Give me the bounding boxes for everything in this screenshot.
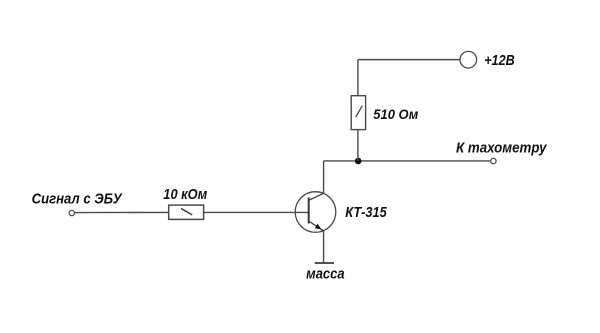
- svg-text:510 Ом: 510 Ом: [373, 106, 419, 122]
- wire: collector up to junction level: [323, 161, 325, 194]
- resistor R1 10 кОм: [169, 205, 204, 219]
- wire: collector node horizontal to output terminal: [324, 160, 491, 162]
- svg-text:10 кОм: 10 кОм: [163, 186, 207, 203]
- svg-text:+12В: +12В: [484, 53, 515, 69]
- resistor R2 510 Ом: [351, 96, 365, 130]
- svg-text:КТ-315: КТ-315: [345, 205, 387, 221]
- wire: resistor R2 up: [357, 60, 359, 96]
- transistor Q1 КТ-315: [295, 192, 336, 233]
- node: output terminal (К тахометру): [491, 158, 496, 163]
- svg-text:К тахометру: К тахометру: [456, 139, 547, 156]
- node: input terminal (Сигнал с ЭБУ): [69, 210, 74, 215]
- wire: emitter down to ground: [323, 231, 325, 263]
- wire: junction up to resistor R2: [357, 130, 359, 161]
- node: +12V supply terminal: [460, 51, 477, 68]
- junction dot node: [355, 158, 362, 165]
- wire: horizontal to +12V terminal: [358, 59, 460, 61]
- ground bar: [315, 262, 334, 264]
- wire: resistor R1 to transistor base: [204, 211, 309, 213]
- wire: input terminal to resistor R1: [75, 211, 169, 213]
- svg-text:Сигнал с ЭБУ: Сигнал с ЭБУ: [32, 190, 124, 207]
- svg-text:масса: масса: [306, 266, 345, 283]
